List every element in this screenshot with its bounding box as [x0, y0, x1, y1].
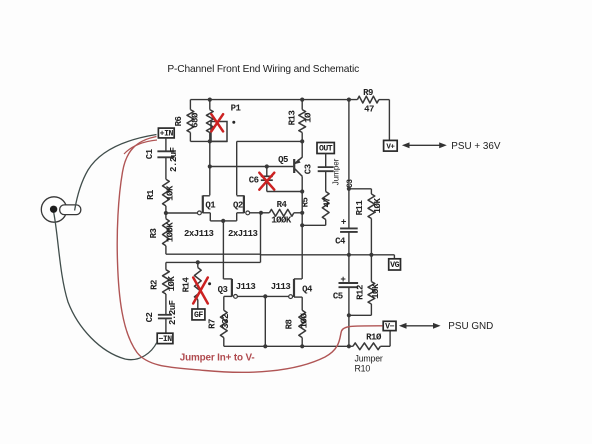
- capacitor C5: [333, 255, 358, 346]
- node R1 R3 junction: [164, 211, 168, 215]
- arrow to PSU GND: [399, 323, 441, 329]
- resistor R11: [355, 189, 383, 255]
- svg-text:R9: R9: [363, 88, 373, 98]
- capacitor C1: [145, 138, 179, 179]
- svg-text:R3: R3: [149, 229, 159, 239]
- svg-text:Jumper In+ to V-: Jumper In+ to V-: [180, 352, 255, 363]
- svg-text:R13: R13: [287, 111, 297, 126]
- node C4 on feedback row: [347, 253, 351, 257]
- svg-text:Q5: Q5: [278, 155, 288, 165]
- capacitor C2: [145, 300, 178, 333]
- svg-text:GF: GF: [194, 311, 203, 320]
- jfet Q4: [271, 279, 313, 310]
- svg-text:2.2uF: 2.2uF: [169, 147, 179, 172]
- resistor R2: [149, 262, 176, 314]
- svg-text:+IN: +IN: [160, 130, 174, 139]
- jfet Q3: [218, 279, 256, 310]
- node column top: [347, 98, 351, 102]
- svg-text:1ØK: 1ØK: [165, 185, 175, 201]
- resistor R7: [208, 310, 231, 346]
- terminal +IN: [158, 128, 174, 139]
- svg-text:P1: P1: [231, 104, 242, 114]
- svg-text:C3: C3: [303, 164, 313, 174]
- svg-text:−IN: −IN: [158, 335, 172, 344]
- terminal V-: [383, 321, 396, 331]
- svg-text:C6: C6: [249, 176, 259, 186]
- label Jumper R10: [355, 353, 383, 373]
- resistor R12: [349, 255, 381, 315]
- terminal -IN: [157, 333, 173, 344]
- svg-text:V+: V+: [386, 143, 395, 151]
- wire R13 bottom to Q2 drain: [237, 140, 303, 142]
- svg-text:2xJ113: 2xJ113: [184, 229, 214, 239]
- node R13 top: [300, 98, 304, 102]
- node gate column rail: [263, 344, 267, 348]
- svg-text:1ØØK: 1ØØK: [271, 215, 292, 225]
- wire V+ drop: [388, 100, 390, 141]
- wire R3 bottom row: [166, 253, 261, 255]
- node output column top: [300, 139, 304, 143]
- svg-text:1ØØK: 1ØØK: [166, 222, 176, 243]
- node column rail: [347, 344, 351, 348]
- wire main vertical column: [348, 100, 350, 229]
- svg-text:Q2: Q2: [233, 200, 243, 210]
- node Q2 gate: [259, 211, 263, 215]
- resistor R3: [149, 213, 176, 254]
- node R11 R12 on feedback row: [369, 253, 373, 257]
- svg-text:C3: C3: [347, 179, 355, 188]
- terminal V+: [384, 140, 398, 151]
- svg-text:R6: R6: [174, 117, 184, 127]
- input jack: [41, 197, 81, 222]
- svg-text:R1Ø: R1Ø: [366, 333, 382, 343]
- capacitor C6: [249, 167, 273, 192]
- resistor R4: [261, 200, 302, 225]
- svg-text:VG: VG: [390, 261, 399, 270]
- svg-text:1ØK: 1ØK: [371, 283, 381, 299]
- node Q1 drain / base wire: [208, 164, 212, 168]
- resistor R10: [353, 331, 390, 350]
- resistor R6: [174, 100, 227, 142]
- svg-text:1ØØ: 1ØØ: [299, 313, 309, 329]
- svg-text:1ØK: 1ØK: [373, 198, 383, 214]
- node R4 right: [300, 211, 304, 215]
- svg-text:1Ø: 1Ø: [304, 112, 314, 123]
- svg-text:R12: R12: [355, 285, 365, 300]
- terminal VG: [389, 259, 401, 270]
- transistor Q5: [278, 141, 302, 176]
- svg-text:47: 47: [323, 198, 333, 208]
- resistor R13: [287, 100, 313, 142]
- wire output column: [301, 176, 303, 279]
- svg-text:R11: R11: [355, 200, 365, 216]
- terminal GF: [192, 309, 205, 320]
- red X over P1: [211, 114, 223, 131]
- wire gate row Q3 Q4: [237, 295, 288, 297]
- wire sources to Q3 drain: [222, 221, 224, 279]
- node R14 top: [196, 260, 200, 264]
- wire Q2 drain column: [236, 141, 238, 195]
- node R8 rail: [300, 344, 304, 348]
- svg-text:Q3: Q3: [218, 285, 228, 295]
- svg-text:Q4: Q4: [302, 285, 313, 295]
- jfet Q1: [184, 195, 223, 238]
- svg-text:47: 47: [364, 105, 374, 115]
- svg-text:C1: C1: [145, 148, 155, 159]
- wire C6 to output column: [267, 191, 302, 193]
- node C5 R12 bottom: [347, 313, 351, 317]
- svg-text:OUT: OUT: [319, 145, 333, 154]
- svg-text:2xJ113: 2xJ113: [228, 229, 258, 239]
- svg-text:P-Channel Front End Wiring and: P-Channel Front End Wiring and Schematic: [167, 64, 359, 75]
- svg-text:PSU GND: PSU GND: [448, 321, 493, 332]
- red X over R14: [193, 278, 208, 304]
- wire Q1 drain column: [209, 141, 211, 195]
- svg-text:R4: R4: [277, 200, 288, 210]
- wire R11 branch: [349, 188, 372, 190]
- node Q1 Q2 source join: [221, 219, 225, 223]
- svg-text:68Ø: 68Ø: [191, 112, 201, 128]
- potentiometer P1: [206, 100, 241, 142]
- svg-text:C4: C4: [335, 236, 346, 246]
- svg-text:R7: R7: [208, 319, 218, 329]
- svg-text:Jumper: Jumper: [355, 353, 383, 363]
- wire jack sleeve to +IN: [75, 135, 157, 211]
- wire top supply rail: [190, 99, 357, 101]
- svg-text:PSU + 36V: PSU + 36V: [451, 141, 501, 152]
- wire R1 to Q1 gate: [166, 212, 198, 214]
- resistor R5: [300, 192, 332, 226]
- wire jack tip to -IN: [54, 213, 157, 360]
- svg-text:C2: C2: [145, 313, 155, 323]
- resistor R1: [146, 179, 175, 213]
- wire Q2 gate drop: [260, 213, 262, 263]
- svg-text:332: 332: [221, 314, 231, 329]
- wire feedback row: [261, 254, 395, 256]
- resistor R14: [182, 262, 212, 309]
- svg-text:Jumper: Jumper: [331, 158, 340, 185]
- node R5 bottom: [300, 223, 304, 227]
- svg-text:Q1: Q1: [205, 200, 216, 210]
- resistor R9: [357, 88, 378, 115]
- node R11 branch: [347, 187, 351, 191]
- svg-text:R2: R2: [149, 280, 159, 290]
- capacitor C3: [303, 154, 333, 192]
- svg-text:1ØK: 1ØK: [167, 276, 177, 292]
- svg-text:V−: V−: [385, 323, 394, 332]
- svg-text:R8: R8: [285, 320, 295, 330]
- svg-text:R14: R14: [182, 277, 192, 293]
- wire Q5 base row: [210, 166, 293, 168]
- red jumper wire In+ to V-: [117, 137, 382, 373]
- jfet Q2: [223, 195, 261, 238]
- wire gate drop to rail: [264, 296, 266, 346]
- node gate join: [263, 294, 267, 298]
- svg-text:R1: R1: [146, 189, 156, 200]
- red X over C6: [259, 173, 274, 190]
- wire R2 top row: [166, 261, 261, 263]
- svg-text:2.2uF: 2.2uF: [168, 300, 178, 325]
- svg-text:J113: J113: [271, 282, 291, 292]
- svg-text:C5: C5: [333, 291, 343, 301]
- node R6/P1 bottom: [208, 139, 212, 143]
- capacitor C4: [335, 217, 358, 255]
- node P1 top: [208, 98, 212, 102]
- svg-text:R10: R10: [355, 363, 371, 373]
- red jumper wire strand: [124, 140, 157, 154]
- wire VG stub: [393, 255, 395, 259]
- wire bottom rail: [224, 345, 353, 347]
- arrow to PSU +36V: [402, 142, 447, 148]
- terminal OUT: [317, 143, 334, 154]
- svg-text:J113: J113: [236, 282, 256, 292]
- resistor R8: [285, 310, 310, 346]
- node collector/C6: [300, 189, 304, 193]
- node C6 top: [265, 164, 269, 168]
